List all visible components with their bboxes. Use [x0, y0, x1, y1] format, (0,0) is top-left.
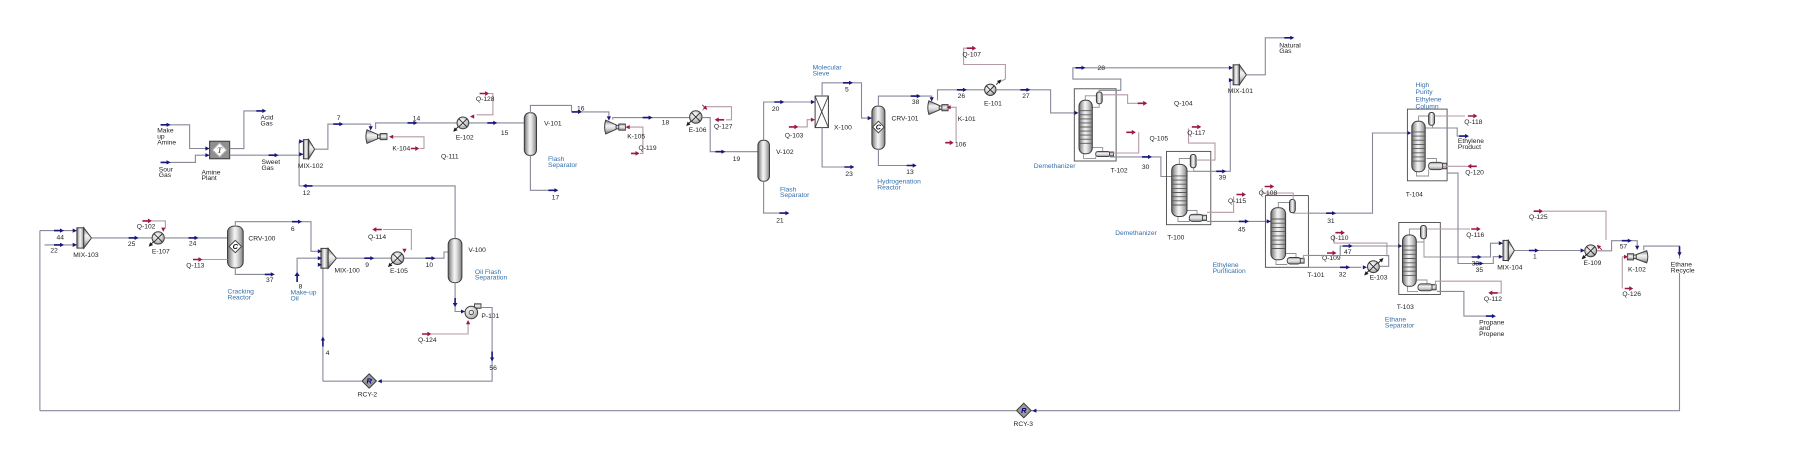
mixer MIX-103: [77, 228, 84, 248]
svg-text:E-109: E-109: [1584, 260, 1602, 267]
svg-text:56: 56: [489, 365, 497, 372]
svg-text:Q-128: Q-128: [476, 96, 495, 103]
mixer MIX-102: [303, 140, 308, 159]
wire stream 4 RCY-2 to MIX-100: [321, 265, 323, 382]
Q-127 outflow head: [701, 103, 709, 111]
svg-text:T-103: T-103: [1397, 304, 1414, 311]
wire stream 22 feed: [45, 244, 77, 246]
wire MIX-102 inlet stubs: [299, 140, 303, 142]
mixer MIX-100: [321, 248, 328, 268]
svg-text:27: 27: [1022, 93, 1030, 100]
svg-text:V-102: V-102: [776, 149, 794, 156]
wire stream 19 E-106 to V-102: [702, 118, 758, 152]
wire stream 17 V-101 bottoms: [530, 155, 548, 190]
stream arrow 22: [54, 243, 64, 247]
wire stream 21 V-102 bottoms: [764, 181, 780, 213]
svg-text:20: 20: [772, 106, 780, 113]
svg-text:18: 18: [662, 120, 670, 127]
svg-text:Q-117: Q-117: [1187, 130, 1205, 137]
heat-exchanger E-106: [690, 111, 702, 123]
heat-exchanger E-103: [1368, 261, 1380, 273]
svg-text:Demethanizer: Demethanizer: [1115, 230, 1157, 237]
svg-text:C: C: [233, 242, 239, 251]
energy arrow Q-118: [1468, 114, 1478, 119]
svg-text:13: 13: [906, 169, 914, 176]
wire stream 44 into MIX-103: [40, 230, 77, 232]
svg-text:9: 9: [365, 262, 369, 269]
stream arrow sweet gas: [269, 153, 279, 157]
wire stream 31 T-101 overhead to T-104: [1308, 133, 1409, 213]
svg-text:Q-127: Q-127: [714, 123, 733, 130]
vessel V-100: [448, 239, 462, 283]
heat-exchanger E-105: [391, 252, 404, 265]
stream arrow 7: [333, 122, 343, 126]
stream arrow 27: [1020, 88, 1030, 92]
svg-text:21: 21: [776, 217, 784, 224]
energy arrow Q-103: [789, 125, 799, 130]
arrowhead into T-102: [1074, 111, 1078, 115]
energy Q-128 head into E-102: [470, 114, 474, 118]
svg-text:Gas: Gas: [159, 172, 172, 179]
energy arrow Q-127: [715, 117, 725, 122]
condenser T-103: [1421, 226, 1427, 239]
stream arrow 20: [774, 100, 784, 104]
reboiler T-101: [1287, 258, 1301, 265]
wire stream 23 X-100 bottoms: [822, 128, 844, 167]
E-105 SW flow arrow: [387, 261, 395, 269]
svg-text:Purity: Purity: [1416, 89, 1434, 96]
stream arrow 35: [1474, 261, 1484, 265]
stream arrow 31: [1326, 211, 1336, 215]
tower T-103 subflowsheet box: [1399, 223, 1441, 295]
wire stream 57 E-109 to K-102: [1597, 241, 1638, 251]
energy arrow Q-126: [1625, 286, 1634, 291]
svg-text:Ethylene: Ethylene: [1416, 96, 1442, 103]
energy arrow Q-108: [1265, 184, 1275, 189]
svg-text:Q-111: Q-111: [441, 154, 459, 161]
wire ethylene product: [1433, 128, 1460, 136]
wire stream 26 K-101 outlet: [938, 90, 985, 100]
energy stream Q-120 line: [1443, 165, 1468, 167]
svg-text:44: 44: [57, 235, 65, 242]
wire sweet gas: [230, 154, 300, 156]
svg-text:Plant: Plant: [202, 175, 217, 182]
svg-text:106: 106: [955, 141, 966, 148]
heat-exchanger E-101: [985, 84, 996, 95]
tower T-102 subflowsheet box: [1074, 89, 1116, 161]
svg-text:39: 39: [1219, 174, 1227, 181]
stream arrow sour gas: [161, 160, 171, 164]
svg-text:K-104: K-104: [392, 146, 410, 153]
svg-text:5: 5: [845, 87, 849, 94]
Q-107 outflow head: [995, 78, 1003, 86]
tower T-104 internal wires: [1419, 116, 1429, 122]
svg-text:22: 22: [50, 248, 58, 255]
stream arrow 10: [426, 256, 436, 260]
svg-text:30: 30: [1142, 164, 1150, 171]
vessel V-101: [524, 113, 536, 156]
svg-text:1: 1: [1533, 253, 1537, 260]
unit X-100 molecular sieve: [815, 96, 828, 128]
svg-text:Q-112: Q-112: [1484, 296, 1502, 303]
wire MIX-102 inlet collector: [298, 141, 300, 186]
svg-text:T-100: T-100: [1167, 235, 1184, 242]
energy arrow Q-120: [1467, 164, 1477, 169]
stream arrow natural gas end: [1284, 36, 1294, 40]
stream arrow 45: [1239, 219, 1249, 223]
svg-text:Gas: Gas: [262, 165, 275, 172]
tower T-102 internal wires: [1085, 96, 1096, 101]
stream arrow acid gas end: [256, 109, 266, 113]
energy arrow at K-104 label: [411, 146, 420, 151]
svg-text:Purification: Purification: [1213, 268, 1246, 275]
energy stream Q-118 line: [1435, 115, 1466, 117]
svg-text:Demethanizer: Demethanizer: [1034, 163, 1076, 170]
vessel V-102: [758, 140, 770, 181]
wire stream 30 T-102 to T-100: [1110, 157, 1172, 177]
svg-text:47: 47: [1344, 249, 1352, 256]
svg-text:Separator: Separator: [548, 162, 578, 169]
energy stream Q-108 line: [1262, 188, 1293, 200]
wire stream 38 CRV-101 to K-101: [878, 96, 931, 106]
svg-text:CRV-101: CRV-101: [892, 115, 919, 122]
svg-text:Reactor: Reactor: [228, 294, 252, 301]
energy stream Q-109 line: [1304, 255, 1328, 258]
wire stream 10 E-105 to V-100: [404, 252, 448, 258]
E-103 SW flow arrow: [1363, 269, 1371, 277]
svg-text:Sieve: Sieve: [813, 70, 830, 77]
energy stream Q-110 line: [1334, 235, 1387, 257]
svg-text:17: 17: [552, 195, 560, 202]
energy K-102 line: [1622, 257, 1628, 289]
stream arrow ethylene product end: [1459, 134, 1469, 138]
wire stream 35 T-104 bottoms: [1447, 173, 1499, 263]
wire propane stream T-103 bottoms: [1437, 291, 1486, 316]
svg-text:23: 23: [845, 171, 853, 178]
energy arrow Q-115: [1237, 192, 1247, 197]
energy arrow Q-128: [480, 91, 490, 96]
stream arrow 15: [487, 121, 497, 125]
wire stream 32 T-101 to E-103: [1308, 266, 1361, 268]
svg-text:MIX-104: MIX-104: [1497, 265, 1523, 272]
column T-103: [1403, 235, 1417, 286]
stream arrow 6: [292, 220, 302, 224]
svg-text:V-101: V-101: [544, 121, 562, 128]
reactor CRV-100: [228, 226, 244, 268]
svg-text:45: 45: [1238, 227, 1246, 234]
energy stream Q-127 line: [703, 107, 732, 120]
Q-125 head into E-109: [1595, 243, 1603, 251]
wire stream 13 CRV-101 bottoms: [878, 149, 907, 166]
wire V-100 bottoms to P-101: [455, 282, 465, 311]
E-107 SW flow arrow: [147, 240, 155, 248]
svg-text:Amine: Amine: [157, 139, 176, 146]
wire ethane recycle down: [1031, 273, 1679, 411]
svg-text:Q-113: Q-113: [186, 262, 204, 269]
wire stream 33 T-103 overhead: [1424, 242, 1440, 257]
svg-text:Q-103: Q-103: [785, 133, 804, 140]
condenser T-104: [1429, 113, 1435, 126]
svg-text:Q-125: Q-125: [1529, 214, 1548, 221]
svg-text:MIX-100: MIX-100: [335, 267, 361, 274]
energy stream Q-116 line: [1427, 228, 1471, 230]
stream arrow 13 end: [907, 163, 917, 167]
reboiler T-100: [1189, 214, 1203, 221]
compressor K-102: [1636, 251, 1648, 263]
svg-text:14: 14: [413, 116, 421, 123]
energy stream Q-104 line: [1102, 95, 1138, 104]
energy arrow Q-119: [631, 151, 640, 156]
energy arrow Q-112: [1488, 291, 1498, 296]
energy K-105 line: [627, 127, 643, 153]
MIX-101 inlet arrowheads: [1229, 66, 1233, 70]
svg-text:Q-109: Q-109: [1322, 255, 1341, 262]
svg-text:P-101: P-101: [481, 313, 499, 320]
energy arrow Q-106: [945, 140, 954, 145]
wire stream 16 V-101 to K-105: [530, 105, 609, 117]
stream arrow 24: [189, 236, 199, 240]
svg-text:57: 57: [1620, 244, 1628, 251]
arrowhead into E-103: [1363, 265, 1367, 269]
energy head into K-105: [626, 125, 630, 129]
arrowhead into CRV-101: [868, 116, 872, 120]
svg-text:E-107: E-107: [152, 248, 170, 255]
reboiler T-102: [1096, 151, 1110, 156]
stream arrow 57: [1622, 239, 1632, 243]
svg-text:4: 4: [326, 350, 330, 357]
compressor K-105: [605, 120, 617, 134]
stream arrow 9: [364, 256, 374, 260]
E-106 SW flow arrow: [685, 120, 693, 128]
svg-text:Q-120: Q-120: [1465, 170, 1484, 177]
svg-text:Reactor: Reactor: [877, 185, 901, 192]
svg-text:MIX-101: MIX-101: [1228, 88, 1254, 95]
energy stream Q-128 line: [477, 94, 493, 115]
svg-text:Q-105: Q-105: [1150, 136, 1169, 143]
stream arrow 28: [1076, 66, 1086, 70]
stream arrow 33: [1472, 255, 1482, 259]
energy arrow Q-116: [1471, 227, 1481, 232]
energy arrow Q-110: [1335, 230, 1345, 235]
svg-text:RCY-3: RCY-3: [1014, 421, 1034, 428]
label Ethane Recycle: [1668, 259, 1694, 274]
svg-text:7: 7: [337, 115, 341, 122]
MIX-102 inlet arrowheads: [299, 139, 303, 143]
svg-text:K-102: K-102: [1628, 266, 1646, 273]
arrowhead into X-100: [811, 100, 815, 104]
svg-text:Q-102: Q-102: [137, 224, 156, 231]
compressor K-104: [366, 130, 378, 144]
tower T-100 internal wires: [1179, 159, 1190, 165]
heat-exchanger E-107: [152, 232, 164, 244]
energy stream Q-117 line: [1189, 129, 1216, 161]
arrowhead into K-102: [1635, 246, 1639, 250]
svg-text:6: 6: [291, 226, 295, 233]
tower T-104 subflowsheet box: [1407, 109, 1447, 181]
recycle RCY-2: [362, 374, 376, 388]
mixer MIX-103 inlet arrowheads: [73, 229, 77, 233]
energy Q-103 head into X-100: [811, 118, 815, 122]
stream arrow 25: [129, 236, 139, 240]
stream arrow into RCY-2: [378, 379, 382, 383]
arrowhead into amine plant bottom: [205, 153, 209, 157]
stream arrow 47: [1343, 244, 1353, 248]
arrowhead into amine plant top: [205, 146, 209, 150]
energy arrow Q-114: [372, 227, 382, 232]
energy Q-102 head into E-107: [161, 228, 165, 232]
wire stream 56 P-101 to RCY-2: [380, 308, 493, 382]
svg-text:Propene: Propene: [1479, 331, 1505, 338]
compressor K-101: [928, 101, 939, 115]
svg-text:E-103: E-103: [1370, 274, 1388, 281]
arrowhead into T-101 column: [1267, 219, 1271, 223]
svg-text:Q-116: Q-116: [1466, 232, 1484, 239]
svg-text:Oil: Oil: [291, 295, 300, 302]
stream arrow 44: [54, 229, 64, 233]
column T-100: [1172, 164, 1187, 216]
svg-text:38: 38: [912, 99, 920, 106]
wire stream 14 K-104 outlet: [376, 123, 525, 129]
svg-text:Recycle: Recycle: [1671, 268, 1695, 275]
stream arrow make up amine: [161, 123, 171, 127]
arrowhead into RCY-3: [1032, 409, 1036, 413]
svg-text:37: 37: [266, 277, 274, 284]
wire stream 24 E-107 to CRV-100: [165, 237, 228, 239]
column T-101: [1271, 208, 1286, 260]
MIX-104 inlet arrowheads: [1499, 241, 1503, 245]
svg-text:16: 16: [577, 106, 585, 113]
energy stream Q-102 line: [152, 221, 166, 229]
svg-text:T-101: T-101: [1307, 272, 1324, 279]
arrowhead into T-103 column: [1398, 244, 1402, 248]
stream arrow 23 end: [844, 165, 854, 169]
energy arrow Q-113: [193, 257, 203, 262]
stream arrow 32: [1340, 265, 1350, 269]
energy arrow Q-107: [967, 46, 977, 51]
stream arrow 5: [843, 81, 853, 85]
svg-text:12: 12: [303, 190, 311, 197]
svg-text:Column: Column: [1416, 104, 1439, 111]
unit Amine Plant box: [210, 141, 230, 158]
stream arrow 21 end: [779, 211, 789, 215]
stream arrow 1: [1529, 248, 1539, 252]
energy head into K-101: [947, 105, 951, 109]
svg-text:26: 26: [958, 93, 966, 100]
svg-text:RCY-2: RCY-2: [358, 392, 378, 399]
svg-text:K-101: K-101: [958, 116, 976, 123]
wire ethane recycle K-102 outlet: [1644, 246, 1680, 258]
energy stream Q-124 line: [431, 323, 468, 335]
mixer MIX-104: [1503, 240, 1508, 260]
wire RCY-3 to stream 44: [40, 410, 1017, 412]
svg-text:Gas: Gas: [261, 121, 274, 128]
stream arrow 38: [911, 94, 921, 98]
svg-text:CRV-100: CRV-100: [248, 235, 275, 242]
energy head into K-102: [1624, 255, 1628, 259]
svg-text:Q-104: Q-104: [1174, 101, 1193, 108]
svg-text:Q-124: Q-124: [418, 337, 437, 344]
arrowhead into E-109: [1581, 248, 1585, 252]
stream arrow 17 end: [548, 188, 558, 192]
stream arrow propane end: [1486, 314, 1496, 318]
energy K-104 line: [392, 137, 425, 149]
wire stream 7 MIX-102 to K-104: [315, 124, 371, 149]
stream arrow 26: [957, 88, 967, 92]
wire make up amine feed: [161, 125, 210, 149]
energy arrow Q-105: [1126, 130, 1136, 135]
svg-text:25: 25: [128, 241, 136, 248]
stream arrow 39: [1216, 169, 1226, 173]
stream arrow 4: [321, 337, 325, 347]
wire stream 9 MIX-100 to E-105: [336, 257, 391, 259]
energy stream Q-112 line: [1436, 281, 1502, 293]
svg-text:T-102: T-102: [1111, 168, 1128, 175]
wire stream 18 K-105 outlet: [613, 118, 690, 120]
svg-text:R: R: [366, 377, 372, 386]
condenser T-100: [1190, 155, 1196, 168]
E-109 SW flow arrow: [1580, 253, 1588, 261]
svg-text:31: 31: [1327, 218, 1335, 225]
stream arrow 19: [715, 150, 725, 154]
stream arrow 12: [303, 184, 313, 188]
reactor CRV-101: [872, 106, 885, 149]
stream arrow into P-101: [453, 298, 458, 307]
condenser T-102: [1096, 92, 1102, 104]
svg-text:35: 35: [1476, 267, 1484, 274]
svg-text:32: 32: [1339, 272, 1347, 279]
svg-text:E-105: E-105: [390, 268, 408, 275]
pump P-101: [475, 304, 482, 309]
wire stream 45 T-100 to T-101: [1207, 220, 1271, 222]
mixer MIX-101: [1233, 65, 1239, 85]
energy stream Q-114 line: [383, 230, 411, 251]
svg-text:Q-114: Q-114: [368, 234, 386, 241]
stream arrow ethane recycle: [1677, 246, 1681, 256]
stream arrow 37 end: [265, 272, 275, 276]
wire stream 20 V-102 to X-100: [764, 102, 816, 140]
energy stream Q-125 line: [1543, 211, 1606, 240]
reactor CRV-101 C-diamond: [873, 121, 885, 133]
svg-text:Gas: Gas: [1279, 48, 1292, 55]
stream arrow 16: [572, 110, 582, 114]
svg-text:15: 15: [501, 130, 509, 137]
stream arrow 56: [490, 352, 494, 362]
svg-text:Q-110: Q-110: [1330, 235, 1348, 242]
svg-text:MIX-102: MIX-102: [298, 163, 324, 170]
svg-text:Q-119: Q-119: [639, 145, 657, 152]
svg-text:Separation: Separation: [475, 275, 508, 282]
arrowhead into K-104: [369, 126, 373, 130]
svg-text:K-105: K-105: [627, 134, 645, 141]
energy Q-114 head into E-105: [402, 249, 406, 253]
heat-exchanger E-102: [457, 117, 469, 129]
svg-text:Q-115: Q-115: [1228, 198, 1246, 205]
energy stream Q-107 line: [964, 48, 1006, 82]
energy stream Q-115 line: [1207, 197, 1234, 213]
stream arrow 8 feed: [295, 272, 300, 282]
svg-text:Q-126: Q-126: [1622, 291, 1641, 298]
svg-text:24: 24: [189, 241, 197, 248]
wire acid gas: [230, 111, 257, 149]
reboiler T-104: [1429, 162, 1444, 169]
wire stream 8 make-up oil: [297, 258, 321, 273]
svg-text:T-104: T-104: [1406, 191, 1423, 198]
svg-text:R: R: [1021, 406, 1027, 415]
wire stream 5 X-100 to CRV-101: [822, 83, 872, 118]
svg-text:Separator: Separator: [780, 192, 810, 199]
svg-text:X-100: X-100: [834, 124, 852, 131]
svg-text:High: High: [1416, 82, 1430, 89]
